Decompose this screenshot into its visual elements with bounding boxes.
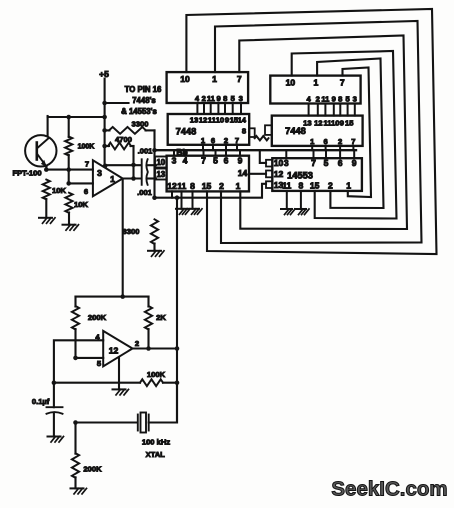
ground under right 14553 a [281, 208, 292, 210]
wire op-amp output [123, 177, 141, 179]
svg-text:9: 9 [225, 116, 229, 125]
svg-text:7: 7 [351, 137, 355, 146]
svg-text:7448: 7448 [285, 126, 306, 136]
wire op-amp bottom input [69, 182, 93, 184]
svg-text:3: 3 [172, 156, 177, 166]
svg-text:10K: 10K [52, 186, 66, 195]
svg-text:1: 1 [201, 136, 206, 145]
resistor R4 4700 body [108, 143, 131, 150]
wires bus to right 14553 top stubs [285, 150, 287, 158]
svg-text:12: 12 [109, 346, 119, 356]
wire long rail x177 [176, 198, 178, 423]
node dot XTAL junction [73, 420, 78, 425]
svg-text:1: 1 [236, 181, 241, 191]
wire 10K2 to ground [68, 213, 70, 225]
wire right pin 8 to ground [300, 191, 302, 209]
resistor R6 3300 lower body [151, 219, 158, 244]
wire nest 5 DS2.1 wrap to U5.2 [317, 59, 383, 209]
svg-text:SeekIC.com: SeekIC.com [331, 478, 447, 501]
svg-text:9: 9 [352, 158, 357, 168]
node dot output junction [131, 176, 136, 181]
wires DS2 to 7448 stubs [308, 104, 310, 116]
svg-text:9: 9 [216, 94, 220, 103]
svg-text:1: 1 [110, 174, 115, 184]
svg-text:4700: 4700 [115, 135, 132, 144]
wire 4700 left lead [105, 145, 109, 147]
display DS1 box [167, 72, 249, 103]
svg-text:XTAL: XTAL [146, 450, 166, 459]
svg-text:14553: 14553 [287, 171, 313, 181]
svg-text:8: 8 [190, 181, 195, 191]
svg-text:0.1µf: 0.1µf [32, 397, 50, 406]
wires bus to left 14553 top stubs [173, 150, 175, 156]
svg-text:.001: .001 [137, 188, 153, 197]
resistor R2 10K body [43, 180, 50, 200]
wire nest 1 DS1.10 wrap to U4.15 [186, 9, 436, 254]
svg-text:12: 12 [199, 116, 207, 125]
node dot 3300 left on +5 rail [102, 128, 107, 133]
IC U2 7448 box [168, 114, 250, 145]
svg-text:12: 12 [274, 169, 284, 179]
svg-text:1: 1 [314, 77, 319, 87]
wire XTAL right [149, 383, 177, 423]
ground below R3 [63, 224, 76, 226]
svg-text:10: 10 [180, 74, 190, 84]
svg-text:9: 9 [332, 94, 336, 103]
svg-text:8: 8 [299, 181, 304, 191]
wire right pin 11 to ground [286, 191, 288, 209]
capacitor C1 .001 right plate [146, 159, 147, 171]
svg-text:200K: 200K [83, 465, 102, 474]
svg-text:3300: 3300 [123, 227, 140, 236]
svg-text:3: 3 [353, 94, 357, 103]
svg-text:14: 14 [238, 168, 248, 178]
svg-text:7: 7 [235, 136, 239, 145]
svg-text:12: 12 [167, 181, 177, 191]
wire +5 supply rail [104, 79, 106, 167]
node dot 100K/pin3 wire [66, 167, 71, 172]
svg-text:FPT-100: FPT-100 [12, 169, 41, 178]
svg-text:2: 2 [135, 339, 139, 348]
wire left pin 12 stub [171, 191, 173, 197]
svg-text:4: 4 [306, 94, 311, 103]
IC U5 14553 box [272, 158, 362, 191]
wires DS1 to 7448 pin stubs [196, 103, 198, 114]
node dot rail/lower bus [152, 195, 157, 200]
svg-text:13: 13 [156, 170, 165, 179]
wire 10K to ground [45, 199, 47, 218]
svg-text:5: 5 [324, 158, 329, 168]
svg-text:1: 1 [310, 137, 315, 146]
svg-text:10: 10 [286, 77, 296, 87]
svg-text:13: 13 [190, 116, 198, 125]
IC U3 7448 box [272, 116, 363, 146]
resistor R9 100K lower body [140, 379, 163, 386]
node dot 4700 left on +5 rail [102, 144, 107, 149]
wire op2 pin5 input [76, 357, 104, 359]
svg-text:11: 11 [177, 181, 186, 191]
wire nest 3 DS1.7 wrap to U4.1 [239, 36, 407, 230]
svg-text:8: 8 [338, 94, 342, 103]
wire 200K lower top lead [74, 423, 76, 454]
svg-text:100K: 100K [147, 370, 166, 379]
svg-text:7: 7 [237, 74, 242, 84]
node dot pin5 junction [73, 356, 78, 361]
svg-text:7: 7 [311, 158, 316, 168]
svg-text:2K: 2K [156, 313, 166, 322]
capacitor C2 .001 left plate [141, 173, 143, 185]
node dot 2K/output [146, 346, 151, 351]
resistor R5 3300 body [109, 127, 146, 134]
node dot pin4/100K wire [52, 380, 57, 385]
svg-text:3: 3 [239, 94, 243, 103]
svg-text:10: 10 [274, 158, 284, 168]
wire 3300 left lead [105, 129, 110, 131]
wire 3300 lower to ground [153, 244, 155, 251]
wire bus jog down to right 14553 pin 10 [260, 150, 266, 163]
wire op-amp top input (pin 3) [46, 169, 93, 171]
wires right 7448 bottom stubs to bus [311, 146, 313, 150]
ground below R10 [71, 487, 84, 489]
node dot rail/output [175, 346, 180, 351]
ground under right 14553 b [295, 208, 306, 210]
node dot 100K/pin6 wire [66, 181, 71, 186]
wire left pin 8 to ground [192, 191, 194, 208]
svg-text:4: 4 [183, 156, 188, 166]
wire cap C1 to pin 10 tab [147, 164, 156, 166]
op-amp U1 triangle [93, 160, 123, 196]
capacitor C3 0.1uF bottom plate [47, 412, 63, 414]
crystal Y1 left plate [137, 415, 139, 431]
svg-text:2: 2 [316, 94, 320, 103]
resistor R3 10K body [65, 193, 72, 213]
node junction dot +5/top supply wire [102, 115, 107, 120]
svg-text:15: 15 [310, 181, 320, 191]
svg-text:6: 6 [84, 187, 88, 196]
svg-text:2: 2 [219, 181, 224, 191]
wire osc top horizontal [76, 296, 149, 298]
wire cap C3 bottom lead [53, 413, 55, 437]
svg-text:1: 1 [212, 74, 217, 84]
svg-text:7448's: 7448's [132, 96, 156, 105]
node dot rail/100K [175, 380, 180, 385]
wire left pin 11 to ground [181, 191, 183, 208]
wire cap C3 top lead [53, 383, 55, 408]
wire 4700 right vertical [132, 146, 134, 179]
wire op2 ground lead [118, 358, 120, 390]
wire pin14 left to pin12 right [249, 173, 266, 175]
node dot osc top [120, 294, 125, 299]
svg-text:7: 7 [201, 156, 206, 166]
svg-text:3300: 3300 [132, 120, 149, 129]
transistor Q1 collector stroke [37, 139, 48, 149]
resistor R7 200K upper body [72, 306, 79, 330]
svg-text:7: 7 [85, 160, 89, 169]
node dot at inverting input [103, 164, 108, 169]
svg-text:5: 5 [345, 94, 350, 103]
svg-text:100 kHz: 100 kHz [142, 438, 170, 447]
svg-text:& 14553's: & 14553's [121, 107, 157, 116]
transistor Q1 emitter arrow [41, 160, 47, 167]
node junction dot at 100K top [66, 115, 71, 120]
svg-text:11: 11 [321, 94, 330, 103]
svg-text:10K: 10K [74, 200, 88, 209]
wire 4700 right lead [131, 145, 134, 147]
svg-text:2: 2 [224, 136, 228, 145]
ground below C3 [48, 436, 61, 438]
wire cap C2 to pin 13 tab [147, 177, 156, 179]
svg-text:2: 2 [202, 94, 206, 103]
svg-text:+5: +5 [99, 69, 109, 79]
svg-text:5: 5 [231, 94, 236, 103]
wire op2 pin4 input [54, 340, 103, 382]
wire top supply horizontal [48, 116, 105, 118]
svg-text:11: 11 [207, 94, 216, 103]
pin 10 tab box left 14553 [155, 157, 167, 168]
svg-text:200K: 200K [88, 313, 107, 322]
svg-text:6: 6 [224, 156, 229, 166]
wire 100K lower left lead [54, 382, 140, 384]
svg-text:6: 6 [338, 158, 343, 168]
svg-text:15: 15 [202, 181, 212, 191]
svg-text:100K: 100K [78, 144, 95, 151]
wire top interconnect bus [155, 149, 357, 151]
svg-text:3: 3 [284, 158, 289, 168]
node dot emitter junction [44, 167, 49, 172]
wire XTAL left [76, 421, 137, 423]
transistor Q1 FPT-100 circle [25, 135, 56, 166]
wire nest 6 DS2.7 wrap to U5.1 [343, 68, 372, 198]
svg-text:5: 5 [97, 359, 102, 368]
capacitor C3 0.1uF top plate [47, 406, 63, 408]
wire inverting input to cap C1 [105, 164, 141, 166]
wire pin8 squiggle to right 7448 [255, 136, 269, 140]
node junction dot on +5 rail (callout) [102, 101, 107, 106]
resistor R1 100K body [65, 137, 72, 156]
svg-text:11: 11 [282, 181, 291, 191]
svg-text:6: 6 [323, 137, 327, 146]
svg-text:2: 2 [338, 137, 342, 146]
wire 100K lower right lead [163, 382, 177, 384]
wire lower bus under left 14553 [155, 184, 267, 198]
svg-text:10: 10 [216, 116, 224, 125]
svg-text:TO PIN 16: TO PIN 16 [125, 85, 162, 94]
svg-text:.001: .001 [138, 147, 154, 156]
resistor R8 2K body [145, 306, 152, 330]
pin 13 tab box left 14553 [155, 169, 167, 180]
svg-text:2: 2 [328, 181, 333, 191]
svg-text:6: 6 [211, 136, 215, 145]
wire op2 output [133, 347, 178, 349]
crystal Y1 right plate [148, 415, 150, 431]
wire 100K bottom lead to inputs [68, 155, 70, 183]
svg-text:15: 15 [345, 119, 354, 128]
wire 100K top lead [68, 117, 70, 137]
tab stubs right 14553 [266, 160, 272, 167]
node dot rail/top bus [152, 148, 157, 153]
ground under left 14553 a [176, 208, 187, 210]
wire nest 4 DS2.10 wrap to U5.15 [292, 51, 397, 219]
svg-text:9: 9 [238, 156, 243, 166]
ground below R6 [148, 250, 161, 252]
svg-text:14: 14 [238, 116, 247, 125]
svg-text:1: 1 [346, 181, 351, 191]
svg-text:7: 7 [340, 77, 345, 87]
svg-text:5: 5 [213, 156, 218, 166]
capacitor C1 .001 left plate [141, 159, 143, 171]
transistor Q1 emitter stroke [37, 154, 47, 167]
capacitor C2 .001 right plate [146, 173, 147, 185]
wire nest 2 DS1.1 wrap to U4.2 [215, 21, 422, 243]
pin 8 stub tab [249, 128, 255, 137]
svg-text:7448: 7448 [176, 127, 197, 137]
node dot cap1 junction [131, 163, 136, 168]
IC U4 14553 box [167, 156, 249, 192]
op-amp U6 triangle [103, 331, 132, 366]
wire 200K lower bottom lead [74, 477, 76, 488]
wire op1 output down rail [122, 179, 124, 297]
svg-text:8: 8 [223, 94, 227, 103]
svg-text:4: 4 [195, 94, 200, 103]
ground below R2 [39, 217, 52, 219]
svg-text:8: 8 [242, 127, 246, 136]
wire 2K leads [147, 297, 149, 307]
ground below op2 [113, 388, 126, 390]
wire collector drop [47, 116, 49, 136]
wire emitter to op-amp input [45, 167, 47, 170]
node dot long rail top [175, 195, 180, 200]
left tab of right 7448 [265, 125, 272, 135]
transistor Q1 base bar [35, 143, 38, 160]
wire 200K upper leads [74, 297, 76, 307]
svg-text:10: 10 [156, 158, 165, 167]
svg-text:12: 12 [314, 119, 322, 128]
display DS2 box [270, 76, 360, 104]
svg-text:10: 10 [331, 119, 339, 128]
resistor R10 200K lower body [72, 453, 79, 478]
wire callout pointer to 7448 text [105, 102, 129, 104]
wire 3300 right lead [146, 129, 155, 131]
svg-text:3: 3 [97, 168, 102, 178]
wires left 7448 bottom stubs to bus [202, 145, 204, 150]
wire rail right of caps [153, 130, 155, 197]
svg-text:9: 9 [340, 119, 344, 128]
ground under left 14553 b [188, 208, 199, 210]
crystal Y1 box [141, 413, 147, 433]
